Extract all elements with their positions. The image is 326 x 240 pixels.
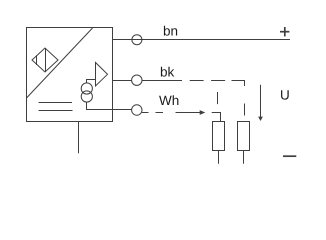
svg-text:U: U [280,88,290,103]
svg-text:bn: bn [163,24,178,39]
svg-text:bk: bk [160,64,175,79]
svg-text:Wh: Wh [159,93,179,108]
